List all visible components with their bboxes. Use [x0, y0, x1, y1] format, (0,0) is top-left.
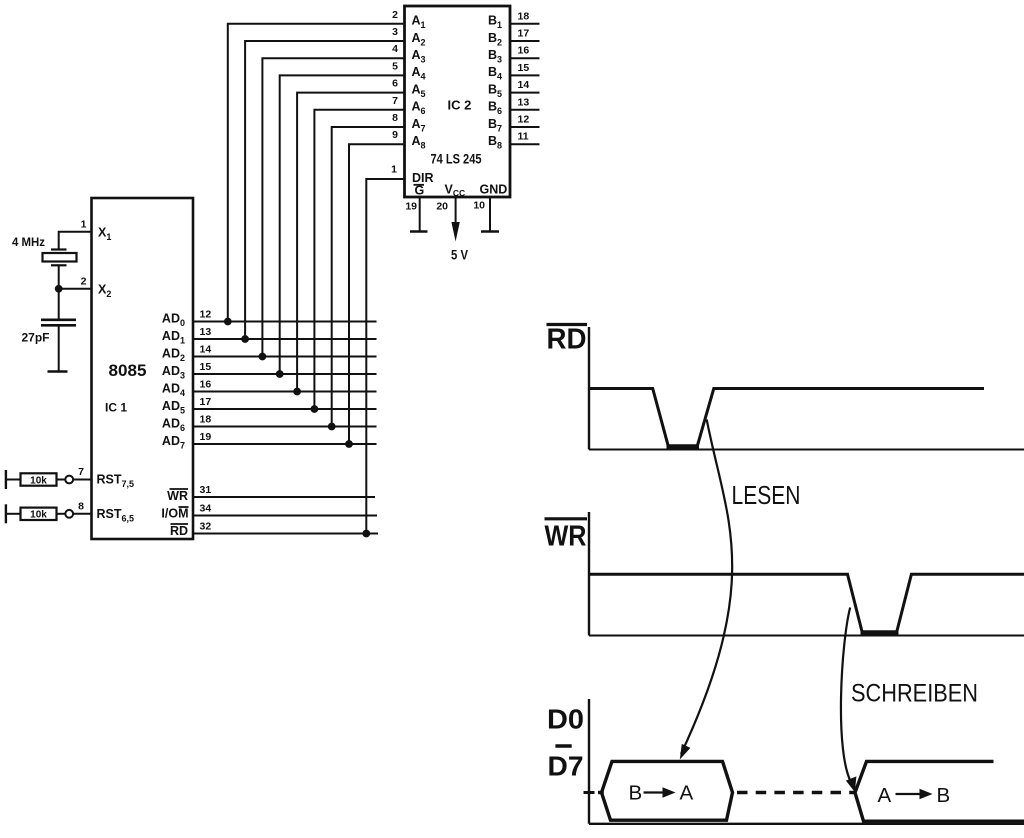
svg-text:15: 15	[200, 361, 212, 373]
svg-text:AD0: AD0	[162, 312, 185, 329]
WR axis	[588, 512, 590, 636]
node: junction A2/AD1	[241, 335, 249, 343]
svg-text:27pF: 27pF	[22, 331, 50, 345]
wire: AD6 bus line	[193, 426, 377, 428]
wire: IC2 DIR pin 1 to 8085 RD line	[366, 179, 404, 534]
svg-text:6: 6	[392, 78, 398, 90]
svg-text:AD5: AD5	[162, 399, 185, 416]
wire: IC2 A3 to AD2 bus	[262, 58, 404, 356]
svg-text:B3: B3	[488, 48, 502, 65]
svg-text:3: 3	[392, 26, 398, 38]
svg-text:1: 1	[81, 218, 87, 230]
wire: R2 to inverter bubble	[57, 513, 66, 515]
wire: AD0 bus line	[193, 321, 377, 323]
capacitor C1 27pF	[41, 318, 76, 321]
svg-text:AD2: AD2	[162, 347, 185, 364]
node: junction A4/AD3	[276, 370, 284, 378]
RD baseline	[589, 449, 1024, 451]
svg-text:13: 13	[200, 326, 212, 338]
svg-text:10: 10	[473, 200, 485, 212]
svg-text:B5: B5	[488, 82, 502, 99]
LESEN arrow (RD pulse to B->A)	[681, 420, 732, 755]
svg-text:IC 1: IC 1	[105, 401, 127, 415]
svg-text:19: 19	[405, 201, 417, 213]
wire: AD3 bus line	[193, 373, 377, 375]
wire: IC2 pin 10 (GND) to ground	[489, 197, 491, 232]
IC U1 8085 box	[92, 198, 194, 539]
svg-text:GND: GND	[480, 183, 508, 197]
svg-text:A2: A2	[412, 31, 426, 48]
svg-text:1: 1	[391, 164, 397, 176]
wire: AD5 bus line	[193, 408, 377, 410]
node: junction A5/AD4	[293, 388, 301, 396]
svg-text:RD: RD	[170, 524, 188, 538]
svg-text:D7: D7	[548, 751, 584, 782]
svg-text:A: A	[680, 782, 694, 805]
WR baseline	[589, 635, 1024, 637]
wire: AD2 bus line	[193, 356, 377, 358]
RD axis	[588, 327, 590, 450]
svg-text:A: A	[878, 784, 892, 807]
resistor R1 10k	[5, 470, 7, 489]
node: junction A7/AD6	[328, 423, 336, 431]
svg-text:I/OM: I/OM	[161, 507, 188, 521]
wire: B2 stub	[510, 40, 540, 42]
svg-text:34: 34	[200, 502, 212, 514]
dash between D0 and D7	[555, 744, 571, 747]
wire: R1 to inverter bubble	[57, 479, 66, 481]
node: junction A1/AD0	[224, 318, 232, 326]
svg-text:RST6,5: RST6,5	[97, 507, 135, 524]
svg-text:A1: A1	[412, 14, 426, 31]
svg-text:8: 8	[392, 112, 398, 124]
IC U2 74LS245 box	[405, 6, 511, 197]
svg-text:16: 16	[518, 45, 530, 57]
node: junction DIR/RD	[362, 530, 370, 538]
wire: IC2 A6 to AD5 bus	[314, 110, 404, 409]
svg-text:A4: A4	[412, 65, 426, 82]
svg-text:74 LS 245: 74 LS 245	[431, 152, 482, 167]
wire: IC2 A5 to AD4 bus	[297, 93, 404, 392]
svg-text:7: 7	[78, 466, 84, 478]
wire: AD1 bus line	[193, 338, 377, 340]
ground symbol at IC2 pin 19	[410, 230, 428, 233]
svg-text:5 V: 5 V	[451, 248, 468, 263]
WR low-level thick segment	[861, 630, 899, 635]
svg-text:B6: B6	[488, 100, 502, 117]
wire: X2 pin	[59, 288, 92, 290]
svg-text:WR: WR	[545, 521, 587, 553]
svg-text:AD4: AD4	[162, 382, 185, 399]
svg-text:X1: X1	[98, 226, 111, 243]
node: junction A8/AD7	[345, 440, 353, 448]
svg-text:32: 32	[200, 520, 212, 532]
svg-text:18: 18	[518, 10, 530, 22]
wire: AD4 bus line	[193, 391, 377, 393]
data valid bubble B to A	[602, 761, 733, 820]
data valid region A to B	[855, 761, 1024, 821]
svg-text:4: 4	[392, 43, 398, 55]
svg-text:10k: 10k	[30, 475, 47, 486]
svg-text:B: B	[629, 782, 643, 805]
svg-text:15: 15	[518, 62, 530, 74]
svg-text:31: 31	[200, 484, 212, 496]
wire: AD7 bus line	[193, 443, 377, 445]
crystal 4 MHz	[51, 248, 67, 250]
wire: X1 to crystal	[59, 232, 92, 250]
svg-text:14: 14	[200, 343, 212, 355]
wire: B7 stub	[510, 126, 540, 128]
wire: IC2 pin 20 (Vcc) supply arrow	[455, 197, 457, 225]
svg-text:AD7: AD7	[162, 434, 185, 451]
svg-text:2: 2	[392, 9, 398, 21]
svg-text:B4: B4	[488, 65, 502, 82]
svg-text:LESEN: LESEN	[732, 480, 801, 510]
wire: IC2 A4 to AD3 bus	[280, 75, 405, 374]
RD low-level thick segment	[667, 444, 700, 449]
ground symbol at IC2 pin 10	[481, 230, 499, 233]
svg-text:5: 5	[392, 60, 398, 72]
wire: bubble to 8085	[73, 479, 91, 481]
wire: IC2 A7 to AD6 bus	[332, 127, 405, 427]
svg-text:A5: A5	[412, 82, 426, 99]
svg-text:D0: D0	[547, 704, 584, 735]
RD waveform	[589, 389, 984, 447]
node: junction A6/AD5	[311, 405, 319, 413]
inverter bubble at RST pin	[65, 510, 73, 518]
svg-text:B: B	[937, 784, 951, 807]
svg-text:13: 13	[518, 96, 530, 108]
high-impedance dashed line	[737, 791, 855, 794]
svg-text:8085: 8085	[109, 362, 147, 380]
svg-text:17: 17	[200, 396, 212, 408]
wire: B6 stub	[510, 109, 540, 111]
SCHREIBEN arrow (WR pulse to A->B)	[841, 608, 852, 785]
svg-text:AD6: AD6	[162, 417, 185, 434]
wire: WR line	[193, 496, 375, 498]
svg-text:WR: WR	[167, 489, 188, 503]
svg-text:4 MHz: 4 MHz	[12, 235, 45, 249]
svg-text:X2: X2	[98, 283, 111, 300]
WR waveform	[589, 574, 1024, 633]
wire: IC2 A8 to AD7 bus	[349, 144, 405, 444]
svg-text:17: 17	[518, 28, 530, 40]
svg-text:VCC: VCC	[445, 183, 466, 199]
wire: B3 stub	[510, 57, 540, 59]
svg-text:18: 18	[200, 413, 212, 425]
wire: IC2 A2 to AD1 bus	[245, 41, 404, 339]
svg-text:12: 12	[200, 308, 212, 320]
svg-text:8: 8	[78, 500, 84, 512]
svg-text:SCHREIBEN: SCHREIBEN	[851, 680, 978, 708]
svg-text:IC 2: IC 2	[448, 98, 472, 113]
svg-text:A7: A7	[412, 117, 426, 134]
svg-text:A3: A3	[412, 48, 426, 65]
svg-text:14: 14	[518, 79, 530, 91]
svg-text:B2: B2	[488, 31, 502, 48]
wire: I/OM line	[193, 515, 377, 517]
svg-text:B8: B8	[488, 134, 502, 151]
wire: IC2 A1 to AD0 bus	[228, 24, 405, 322]
svg-text:12: 12	[518, 114, 530, 126]
D bus axis	[588, 699, 590, 824]
axis tick at data mid level	[584, 791, 595, 794]
wire: B8 stub	[510, 143, 540, 145]
svg-text:AD1: AD1	[162, 329, 185, 346]
svg-text:B7: B7	[488, 117, 502, 134]
svg-text:16: 16	[200, 378, 212, 390]
svg-text:B1: B1	[488, 14, 502, 31]
svg-text:10k: 10k	[30, 510, 47, 521]
resistor R2 10k	[5, 504, 7, 523]
svg-text:A8: A8	[412, 134, 426, 151]
svg-text:2: 2	[81, 275, 87, 287]
svg-text:A6: A6	[412, 100, 426, 117]
wire: B1 stub	[510, 23, 540, 25]
wire: crystal to X2 node	[58, 265, 60, 289]
high-impedance dashed line lead-in	[598, 791, 604, 794]
svg-text:11: 11	[518, 131, 529, 143]
node: X2 junction	[55, 285, 63, 293]
node: junction A3/AD2	[259, 353, 267, 361]
svg-text:7: 7	[392, 95, 398, 107]
wire: B4 stub	[510, 74, 540, 76]
wire: capacitor to ground	[58, 325, 60, 371]
svg-text:19: 19	[200, 431, 212, 443]
wire: IC2 pin 19 (G) to ground	[419, 197, 421, 232]
ground symbol below capacitor	[48, 370, 68, 373]
svg-text:9: 9	[392, 129, 398, 141]
wire: B5 stub	[510, 92, 540, 94]
svg-text:AD3: AD3	[162, 364, 185, 381]
svg-text:20: 20	[436, 201, 448, 213]
svg-text:RD: RD	[547, 324, 587, 356]
wire: node to capacitor	[58, 289, 60, 320]
svg-text:RST7,5: RST7,5	[97, 473, 135, 490]
wire: RD line	[193, 533, 378, 535]
wire: bubble to 8085	[73, 513, 91, 515]
D bus baseline	[589, 823, 1024, 825]
inverter bubble at RST pin	[65, 476, 73, 484]
